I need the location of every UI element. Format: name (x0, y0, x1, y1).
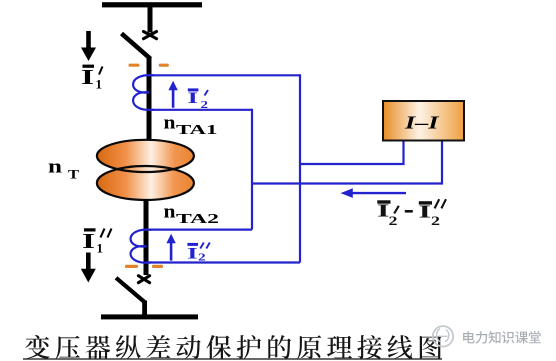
watermark text (463, 331, 541, 344)
svg-text:n: n (48, 156, 63, 177)
CT TA2 core dashes (125, 265, 163, 268)
wire breaker QF1 to transformer (147, 57, 152, 147)
breaker QF1 blade (122, 34, 151, 59)
label I"2 (187, 243, 210, 264)
CT TA1 core dashes (129, 64, 169, 67)
breaker QF2 blade (116, 278, 145, 302)
svg-text:2: 2 (201, 99, 209, 111)
svg-text:T: T (68, 167, 79, 182)
transformer winding W1 outline (97, 140, 194, 172)
svg-text:I: I (81, 65, 94, 89)
wire TA2 bottom terminal to node A (146, 261, 300, 263)
wire relay right lead (252, 140, 442, 184)
wire transformer to breaker QF2 (144, 199, 149, 275)
busbar bottom (101, 314, 198, 319)
svg-text:I: I (419, 201, 432, 221)
CT TA2 secondary winding (131, 230, 152, 263)
label nTA2 (164, 202, 220, 227)
svg-text:2: 2 (431, 214, 440, 228)
CT TA1 secondary winding (133, 75, 154, 110)
arrow current I"1 (81, 253, 96, 283)
wire TA2 top terminal to node B (146, 229, 252, 231)
wire TA1 bottom terminal to node B (148, 109, 252, 111)
svg-text:I–I: I–I (404, 113, 440, 133)
arrow current I'2 (168, 81, 177, 108)
arrow differential current (341, 188, 407, 198)
wire TA1 top terminal to node A (148, 74, 300, 76)
watermark icon (433, 326, 453, 346)
caption text (25, 335, 441, 359)
wire breaker QF2 to bottom busbar (142, 301, 147, 318)
transformer winding W2 outline (97, 166, 194, 200)
svg-text:2: 2 (198, 251, 206, 263)
svg-text:I: I (188, 90, 199, 107)
label I'2 (188, 88, 209, 110)
wire node B vertical (251, 109, 253, 230)
breaker QF1 contact cross (144, 32, 157, 39)
label nT (48, 156, 79, 181)
relay box (383, 101, 464, 141)
svg-text:2: 2 (389, 214, 398, 228)
label I"1 (82, 228, 112, 255)
label nTA1 (164, 113, 218, 138)
svg-text:1: 1 (97, 240, 104, 255)
svg-text:n: n (164, 202, 176, 223)
arrow current I'1 (81, 31, 96, 61)
transformer winding fills (97, 166, 194, 200)
busbar top (102, 2, 202, 7)
breaker QF2 contact cross (138, 276, 149, 283)
svg-text:1: 1 (96, 77, 103, 92)
label I'2 minus I"2 (377, 199, 446, 228)
svg-text:I: I (187, 245, 198, 262)
arrow current I"2 (166, 234, 175, 261)
caption underline (23, 358, 442, 359)
svg-text:I: I (82, 229, 95, 253)
wire top busbar to breaker QF1 (148, 7, 153, 33)
wire relay left lead (300, 140, 404, 164)
svg-text:TA2: TA2 (176, 212, 219, 227)
label I'1 (81, 65, 103, 92)
svg-text:TA1: TA1 (176, 123, 218, 138)
wire node A vertical (299, 74, 301, 262)
svg-text:n: n (164, 113, 176, 134)
